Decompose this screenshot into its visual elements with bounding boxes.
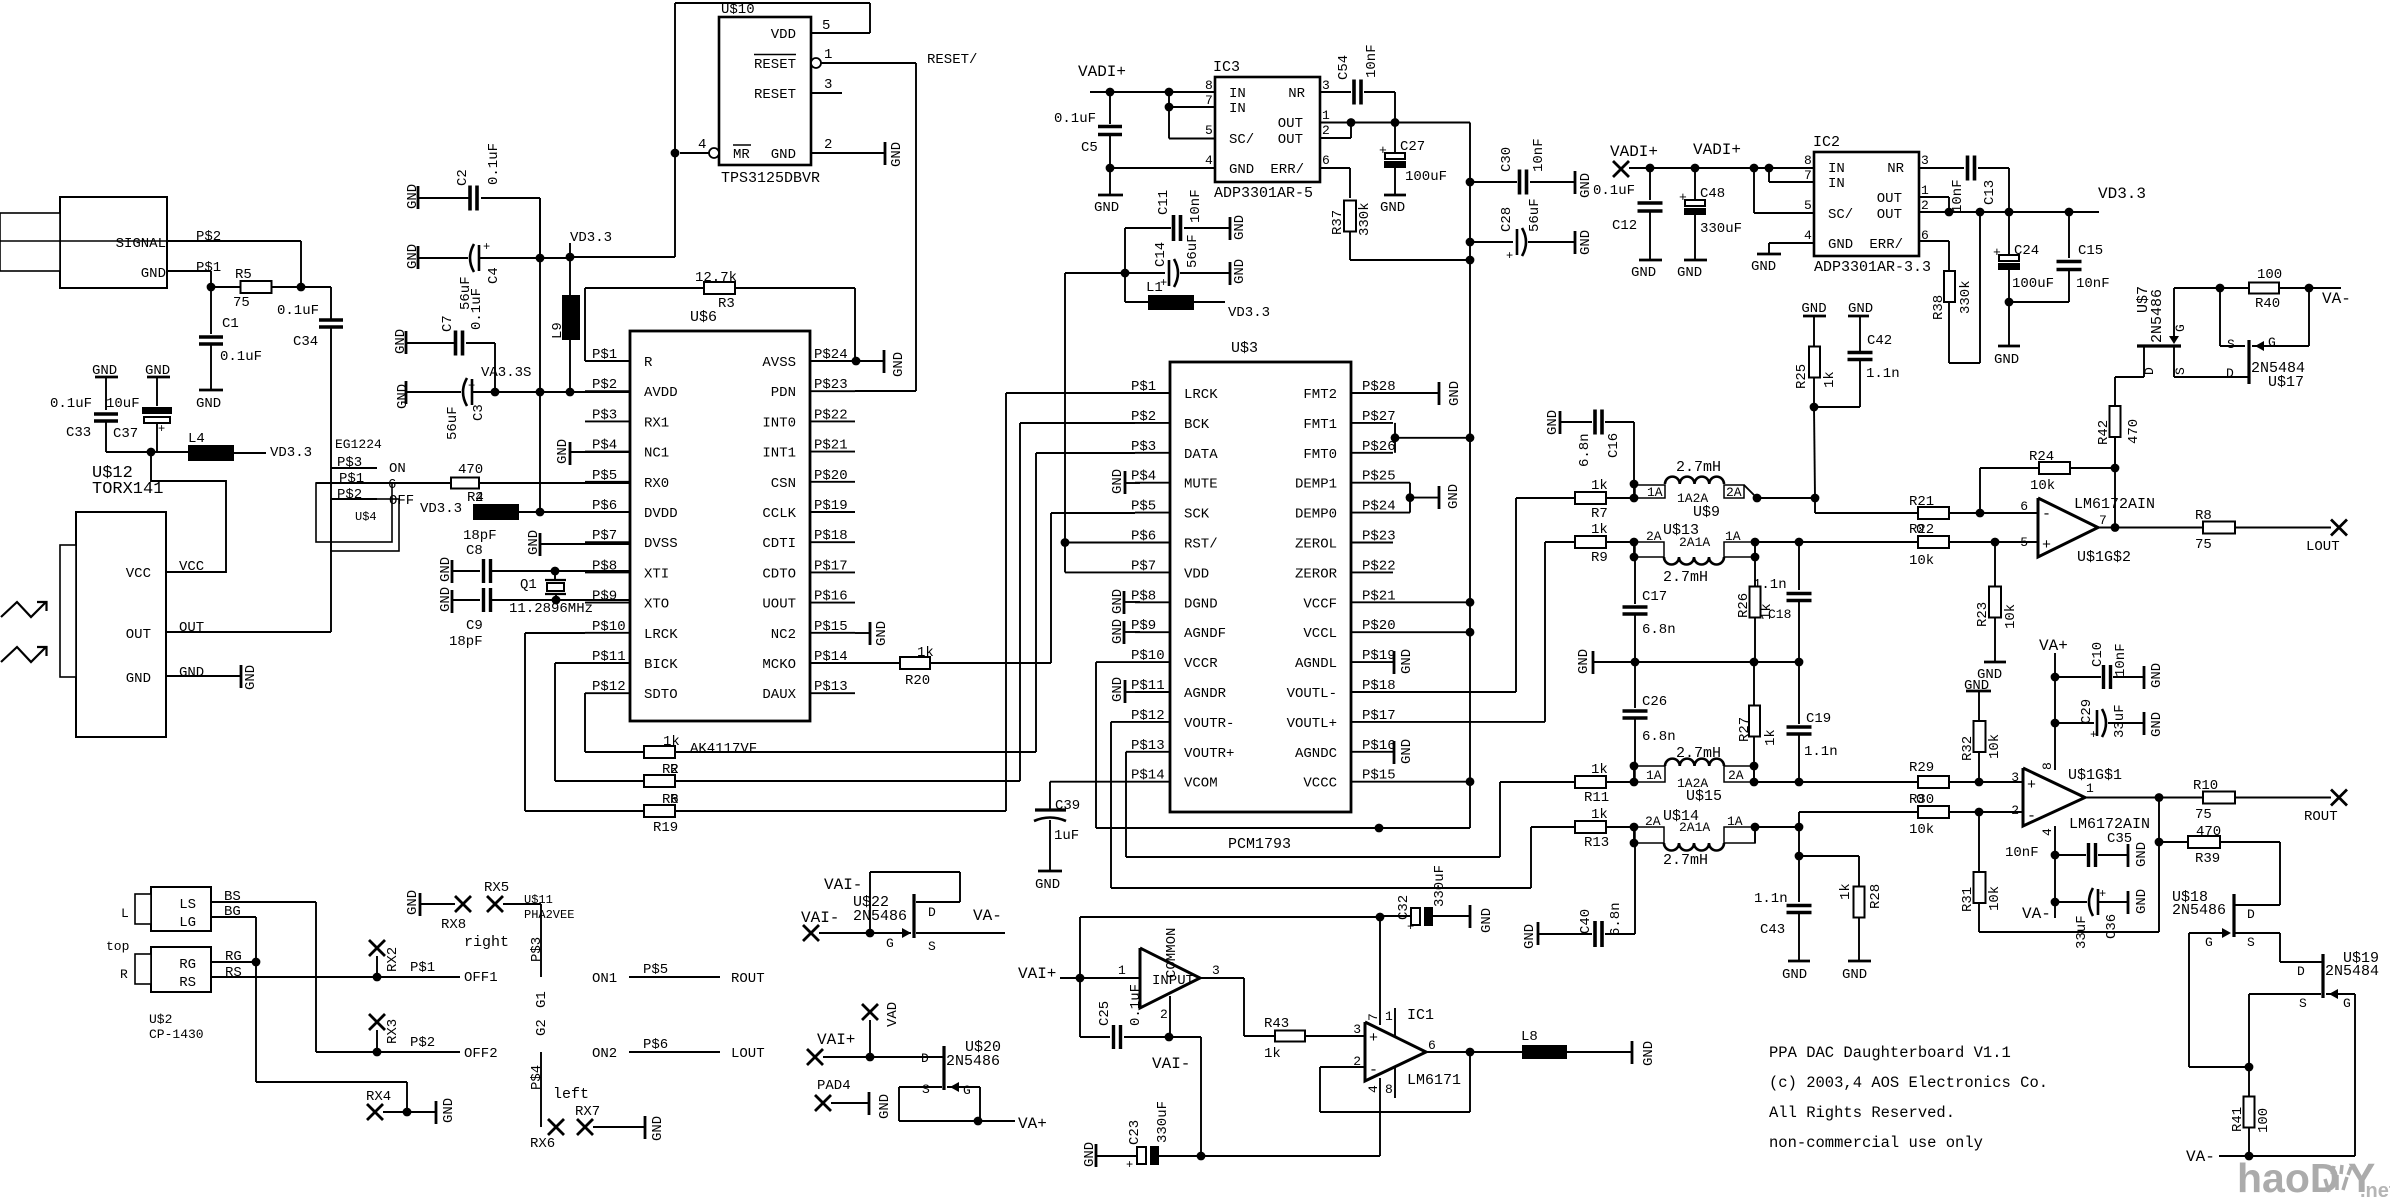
resistor R18 1k (BICK series) (644, 775, 675, 787)
svg-text:R26: R26 (1736, 593, 1752, 618)
capacitor C8 18pF (452, 570, 480, 572)
svg-text:P$20: P$20 (1362, 618, 1396, 634)
svg-text:G1: G1 (534, 991, 550, 1008)
svg-text:330uF: 330uF (1432, 865, 1448, 907)
svg-text:C37: C37 (113, 426, 138, 442)
svg-text:ROUT: ROUT (2304, 809, 2338, 825)
svg-text:U$2: U$2 (149, 1012, 172, 1027)
capacitor C2 0.1uF (418, 197, 470, 199)
svg-text:P$15: P$15 (814, 619, 848, 635)
svg-text:GND: GND (1522, 924, 1538, 949)
wire BICK down (554, 663, 556, 781)
svg-text:PHA2VEE: PHA2VEE (524, 908, 574, 922)
wire C13 to VD3.3 row (2008, 168, 2010, 212)
wire U$9 out (1757, 497, 1815, 499)
pin P$19 AGNDL (1351, 661, 1393, 663)
svg-text:DVDD: DVDD (644, 506, 678, 522)
svg-text:P$1: P$1 (410, 960, 435, 976)
svg-text:C12: C12 (1612, 218, 1637, 234)
capacitor C28 56uF polarized (1466, 238, 1475, 247)
svg-text:10nF: 10nF (1364, 44, 1380, 78)
ground (1574, 231, 1577, 254)
svg-text:U$3: U$3 (1231, 340, 1258, 357)
svg-text:P$23: P$23 (1362, 529, 1396, 545)
svg-text:non-commercial use only: non-commercial use only (1769, 1134, 1983, 1152)
light arrow 2 (1, 647, 46, 662)
capacitor C17 6.8n (1634, 557, 1636, 604)
wire R3 to AVSS (854, 288, 856, 361)
svg-text:PPA DAC Daughterboard V1.1: PPA DAC Daughterboard V1.1 (1769, 1044, 2011, 1062)
svg-text:RX8: RX8 (441, 917, 466, 933)
junction (1975, 808, 1984, 817)
svg-text:+: + (1407, 920, 1414, 934)
svg-text:ON1: ON1 (592, 971, 617, 987)
svg-text:FMT0: FMT0 (1303, 447, 1337, 463)
junction (566, 388, 575, 397)
svg-text:G: G (2173, 324, 2188, 332)
svg-text:3: 3 (1322, 78, 1330, 93)
svg-text:R11: R11 (1584, 790, 1609, 806)
svg-text:G: G (2343, 996, 2351, 1011)
junction (147, 448, 156, 457)
svg-text:VAI+: VAI+ (1018, 965, 1056, 983)
svg-text:3: 3 (1212, 963, 1220, 978)
svg-text:GND: GND (1380, 200, 1405, 216)
junction (1975, 778, 1984, 787)
op-amp COMMON buffer (1140, 948, 1200, 1008)
pin P$12 VOUTR- (1135, 721, 1170, 723)
svg-text:G: G (2268, 335, 2276, 350)
wire VOUTR- route (1111, 721, 1135, 723)
svg-text:P$4: P$4 (529, 1065, 545, 1090)
wire D loop (869, 872, 871, 933)
svg-text:0.1uF: 0.1uF (1128, 984, 1144, 1026)
svg-text:RG: RG (179, 957, 196, 973)
svg-text:R24: R24 (2029, 449, 2054, 465)
wire VD3.3 rail to U$10 MR (570, 256, 675, 258)
capacitor C5 0.1uF (1109, 92, 1111, 124)
capacitor C35 10nF (2055, 854, 2086, 856)
svg-text:GND: GND (395, 384, 411, 409)
svg-text:2: 2 (1160, 1007, 1168, 1022)
resistor R28 1k (1854, 887, 1865, 918)
wire OUT row to bus (1351, 122, 1470, 124)
wire U$14 out (1755, 826, 1799, 828)
svg-text:C16: C16 (1606, 433, 1622, 458)
svg-text:VCCL: VCCL (1303, 626, 1337, 642)
ground NC1 (569, 442, 572, 465)
wire VCCF to bus (1393, 601, 1470, 603)
svg-text:D: D (2297, 964, 2305, 979)
svg-text:P$6: P$6 (592, 498, 617, 514)
svg-text:+: + (1379, 143, 1387, 158)
svg-text:S: S (2173, 367, 2188, 375)
svg-text:All Rights Reserved.: All Rights Reserved. (1769, 1104, 1955, 1122)
svg-text:+: + (483, 240, 490, 254)
svg-text:R32: R32 (1960, 736, 1976, 761)
junction (1375, 824, 1384, 833)
svg-text:GND: GND (196, 396, 221, 412)
svg-text:LS: LS (179, 897, 196, 913)
svg-text:S: S (2227, 337, 2235, 352)
svg-text:P$1: P$1 (592, 347, 617, 363)
svg-text:DGND: DGND (1184, 596, 1218, 612)
transistor U$17 2N5484 (2219, 288, 2221, 346)
svg-text:1: 1 (1921, 183, 1929, 198)
svg-text:LOUT: LOUT (731, 1046, 765, 1062)
capacitor C14 56uF polarized (1125, 272, 1165, 274)
pin P$7 DVSS (585, 541, 630, 543)
capacitor C42 1.1n (1814, 406, 1860, 408)
svg-text:10k: 10k (1909, 553, 1934, 569)
svg-text:GND: GND (874, 621, 890, 646)
supply bus vertical (1469, 123, 1471, 782)
pin P$21 INT1 (810, 451, 855, 453)
resistor R7 1k (1516, 497, 1575, 499)
svg-text:10nF: 10nF (1188, 189, 1204, 223)
net VD3.3 (234, 452, 266, 454)
svg-text:8: 8 (1804, 153, 1812, 168)
svg-text:C18: C18 (1768, 607, 1791, 622)
svg-text:7: 7 (1366, 1013, 1381, 1021)
svg-text:3: 3 (1921, 153, 1929, 168)
svg-text:GND: GND (555, 439, 571, 464)
svg-text:VA3.3S: VA3.3S (481, 365, 531, 381)
svg-text:GND: GND (1576, 649, 1592, 674)
svg-text:R40: R40 (2255, 296, 2280, 312)
svg-text:R: R (644, 355, 653, 371)
svg-text:4: 4 (1366, 1085, 1381, 1093)
wire S to VA- (916, 932, 1005, 934)
pin P$4 NC1 (585, 451, 630, 453)
R28 branch (1795, 852, 1804, 861)
svg-text:L9: L9 (550, 322, 566, 339)
wire pin2 (1949, 811, 2023, 813)
svg-text:P$14: P$14 (1131, 768, 1165, 784)
ground (1639, 259, 1662, 262)
svg-text:IN: IN (1828, 176, 1845, 192)
svg-text:10nF: 10nF (2076, 276, 2110, 292)
svg-text:GND: GND (1094, 200, 1119, 216)
svg-text:0.1uF: 0.1uF (277, 303, 319, 319)
ground AGNDR (1124, 680, 1127, 703)
svg-text:P$7: P$7 (592, 528, 617, 544)
svg-text:CSN: CSN (771, 476, 796, 492)
svg-text:C48: C48 (1700, 186, 1725, 202)
svg-text:VADI+: VADI+ (1693, 141, 1741, 159)
svg-text:GND: GND (1631, 265, 1656, 281)
wire G loop (2189, 1066, 2249, 1068)
ground C7 (405, 331, 408, 354)
connector U$12 TORX141 main box (76, 512, 166, 737)
svg-text:GND: GND (1842, 967, 1867, 983)
svg-text:P$13: P$13 (1131, 738, 1165, 754)
svg-text:.net: .net (2360, 1180, 2390, 1201)
svg-text:6.8n: 6.8n (1577, 433, 1593, 467)
resistor R17 1k (SDTO series) (644, 746, 675, 758)
ground (2127, 891, 2130, 914)
svg-text:P$1: P$1 (196, 260, 221, 276)
svg-text:RX7: RX7 (575, 1104, 600, 1120)
wire C34 to TORX OUT (330, 327, 332, 632)
pin7 pin5 ties (1768, 168, 1770, 182)
svg-text:0.1uF: 0.1uF (1054, 111, 1096, 127)
wire LRCK riser (1005, 393, 1007, 811)
switch RX8 (455, 896, 471, 912)
resistor R3 12.7k (585, 287, 705, 289)
wire MCKO to PCM SCK (1050, 513, 1052, 663)
pin P$13 DAUX (810, 692, 855, 694)
svg-text:P$2: P$2 (196, 229, 221, 245)
svg-text:P$17: P$17 (814, 558, 848, 574)
ground C3 (405, 381, 408, 404)
svg-text:5: 5 (1804, 198, 1812, 213)
resistor R30 10k (1918, 806, 1949, 818)
pin P$6 RST/ (1135, 542, 1170, 544)
wire P$4 down (540, 1052, 542, 1127)
wire GND pin (166, 675, 240, 677)
svg-text:2.7mH: 2.7mH (1676, 459, 1721, 476)
svg-text:GND: GND (1232, 215, 1248, 240)
svg-text:6: 6 (1322, 153, 1330, 168)
svg-text:C34: C34 (293, 334, 318, 350)
junction (2051, 851, 2060, 860)
svg-text:P$22: P$22 (814, 407, 848, 423)
crystal Q1 11.2896MHz (554, 571, 556, 580)
switch RX3 (369, 1014, 385, 1030)
svg-text:RX4: RX4 (366, 1089, 391, 1105)
pin P$3 DATA (1135, 452, 1170, 454)
capacitor C25 0.1uF (1079, 978, 1081, 1037)
inductor L2 (473, 504, 519, 520)
pin P$9 XTO (585, 602, 630, 604)
svg-text:VA-: VA- (973, 907, 1002, 925)
svg-text:GND: GND (438, 587, 454, 612)
svg-text:GND: GND (1232, 259, 1248, 284)
svg-text:P$25: P$25 (1362, 469, 1396, 485)
svg-text:VOUTR+: VOUTR+ (1184, 746, 1234, 762)
svg-text:+: + (158, 422, 165, 436)
svg-text:1A: 1A (1647, 485, 1663, 500)
wire R30 row (1798, 812, 1800, 827)
capacitor C29 33uF polarized (2055, 722, 2094, 724)
pin P$3 RX1 (585, 420, 630, 422)
ground (1038, 870, 1062, 873)
svg-text:IC1: IC1 (1407, 1007, 1434, 1024)
resistor R19 1k (LRCK series) (644, 805, 675, 817)
svg-text:S: S (922, 1082, 930, 1097)
svg-text:L8: L8 (1521, 1029, 1538, 1045)
feedback loop to VCCR node (1079, 917, 1081, 978)
pin P$24 AVSS (810, 360, 855, 362)
svg-text:P$16: P$16 (814, 589, 848, 605)
ground AGNDF (1123, 621, 1126, 644)
svg-text:RESET/: RESET/ (927, 52, 977, 68)
pin4 ground (1769, 242, 1814, 244)
pin P$11 AGNDR (1135, 691, 1170, 693)
svg-text:0: 0 (1916, 522, 1924, 538)
svg-text:C40: C40 (1578, 909, 1594, 934)
net LOUT (2331, 520, 2347, 536)
inductor L4 (188, 445, 234, 461)
svg-text:P$12: P$12 (1131, 708, 1165, 724)
svg-text:VDD: VDD (1184, 566, 1209, 582)
svg-text:AVSS: AVSS (762, 355, 796, 371)
svg-text:10nF: 10nF (1950, 179, 1966, 213)
svg-text:100: 100 (2256, 1108, 2272, 1133)
svg-text:10uF: 10uF (106, 396, 140, 412)
pin P$2 BCK (1135, 422, 1170, 424)
resistor R10 75 (2203, 792, 2235, 804)
capacitor C19 1.1n (1798, 662, 1800, 724)
ground MUTE (1124, 471, 1127, 494)
capacitor C33 0.1uF (94, 412, 118, 416)
svg-text:7: 7 (1804, 168, 1812, 183)
svg-text:+: + (2099, 887, 2106, 901)
svg-text:2A1A: 2A1A (1679, 535, 1710, 550)
svg-text:1k: 1k (1822, 371, 1838, 388)
svg-text:P$18: P$18 (1362, 678, 1396, 694)
svg-text:GND: GND (438, 557, 454, 582)
svg-text:D: D (928, 905, 936, 920)
svg-text:ERR/: ERR/ (1869, 237, 1903, 253)
svg-text:C54: C54 (1336, 55, 1352, 80)
svg-text:EG1224: EG1224 (335, 437, 382, 452)
pin P$18 VOUTL- (1351, 691, 1393, 693)
pin1/pin2 OUT tie (1320, 122, 1351, 124)
pin P$25 DEMP1 (1351, 482, 1393, 484)
pin P$8 DGND (1135, 601, 1170, 603)
svg-text:VOUTR-: VOUTR- (1184, 716, 1234, 732)
svg-text:GND: GND (1641, 1041, 1657, 1066)
svg-text:+: + (468, 379, 475, 393)
svg-text:VA-: VA- (2322, 290, 2351, 308)
svg-text:2.7mH: 2.7mH (1663, 569, 1708, 586)
wire VCCL to bus (1393, 631, 1470, 633)
wire VCCC down to VCCR rail (1469, 782, 1471, 828)
svg-text:DEMP1: DEMP1 (1295, 477, 1337, 493)
pin 2 GND (811, 152, 884, 154)
svg-text:OUT: OUT (179, 620, 204, 636)
svg-text:CDTI: CDTI (762, 536, 796, 552)
svg-text:1k: 1k (917, 645, 934, 661)
svg-text:2: 2 (2011, 803, 2019, 818)
svg-text:R5: R5 (235, 267, 252, 283)
svg-text:C32: C32 (1396, 895, 1412, 920)
pin P$22 INT0 (810, 420, 855, 422)
svg-text:VCC: VCC (126, 566, 151, 582)
svg-text:2N5486: 2N5486 (946, 1053, 1000, 1070)
svg-text:1: 1 (1322, 108, 1330, 123)
junction (552, 596, 561, 605)
svg-text:GND: GND (405, 244, 421, 269)
svg-text:TPS3125DBVR: TPS3125DBVR (721, 170, 820, 187)
svg-text:G: G (963, 1083, 971, 1098)
wire BCK riser (1019, 423, 1021, 781)
wire FMT1/FMT0 tie to bus (1394, 423, 1396, 453)
svg-text:AVDD: AVDD (644, 385, 678, 401)
svg-text:+: + (2027, 777, 2036, 794)
svg-text:GND: GND (1110, 677, 1126, 702)
pin P$12 SDTO (585, 692, 630, 694)
svg-text:GND: GND (1446, 484, 1462, 509)
inductor U$15 2.7mH winding (1630, 762, 1639, 771)
svg-text:R7: R7 (1591, 506, 1608, 522)
svg-text:R43: R43 (1264, 1016, 1289, 1032)
svg-text:GND: GND (405, 184, 421, 209)
junction (1811, 494, 1820, 503)
svg-text:L: L (121, 906, 129, 921)
pin P$9 AGNDF (1135, 631, 1170, 633)
pin P$16 AGNDC (1351, 751, 1393, 753)
junction (1121, 269, 1130, 278)
svg-text:GND: GND (1399, 649, 1415, 674)
svg-text:2A: 2A (1646, 529, 1662, 544)
capacitor C18 1.1n (1798, 542, 1800, 590)
ground (1109, 168, 1111, 195)
svg-text:C42: C42 (1867, 333, 1892, 349)
svg-text:OUT: OUT (1877, 191, 1902, 207)
junction (373, 973, 382, 982)
resistor R40 100 (2174, 287, 2249, 289)
wire LRCK to P$1 (1006, 392, 1135, 394)
resistor R27 1k (1753, 662, 1755, 706)
svg-text:P$21: P$21 (814, 438, 848, 454)
svg-text:P$5: P$5 (1131, 499, 1156, 515)
ground (1984, 661, 2006, 664)
svg-text:haoD: haoD (2237, 1155, 2340, 1201)
resistor R41 100 (2248, 1067, 2250, 1097)
wire VDD rail to filter (1065, 272, 1125, 274)
svg-text:C10: C10 (2090, 642, 2106, 667)
junction (1751, 538, 1760, 547)
svg-text:1k: 1k (1763, 729, 1779, 746)
svg-text:XTI: XTI (644, 566, 669, 582)
svg-text:P$3: P$3 (592, 407, 617, 423)
ground C9 (451, 590, 454, 613)
svg-text:R: R (120, 967, 128, 982)
svg-text:2: 2 (824, 137, 832, 153)
wire RST/ VDD tie to VD3.3 rail (1064, 273, 1066, 572)
svg-text:MCKO: MCKO (762, 657, 796, 673)
svg-text:+: + (1679, 190, 1687, 205)
wire L2 to DVDD (519, 511, 630, 513)
svg-text:VD3.3: VD3.3 (570, 230, 612, 246)
svg-text:75: 75 (2195, 537, 2212, 553)
svg-text:VAD: VAD (885, 1002, 901, 1027)
svg-text:R9: R9 (1591, 550, 1608, 566)
wire SIGNAL to R5/C34 node (167, 240, 301, 242)
capacitor C11 10nF (1124, 228, 1126, 302)
junction (1753, 494, 1762, 503)
pin P$17 VOUTL+ (1351, 721, 1393, 723)
svg-text:G: G (886, 936, 894, 951)
svg-text:CDTO: CDTO (762, 566, 796, 582)
ground (2008, 302, 2010, 346)
svg-text:SCK: SCK (1184, 507, 1210, 523)
resistor R13 1k (1531, 826, 1575, 828)
junction (671, 149, 680, 158)
svg-text:RESET: RESET (754, 57, 796, 73)
svg-text:R39: R39 (2195, 851, 2220, 867)
capacitor C54 10nF (1320, 91, 1351, 93)
svg-text:R38: R38 (1931, 295, 1947, 320)
ground FMT2 (1393, 392, 1438, 394)
svg-text:LM6172AIN: LM6172AIN (2074, 496, 2155, 513)
svg-text:VADI+: VADI+ (1610, 143, 1658, 161)
svg-text:1k: 1k (663, 734, 680, 750)
svg-text:2N5486: 2N5486 (853, 908, 907, 925)
